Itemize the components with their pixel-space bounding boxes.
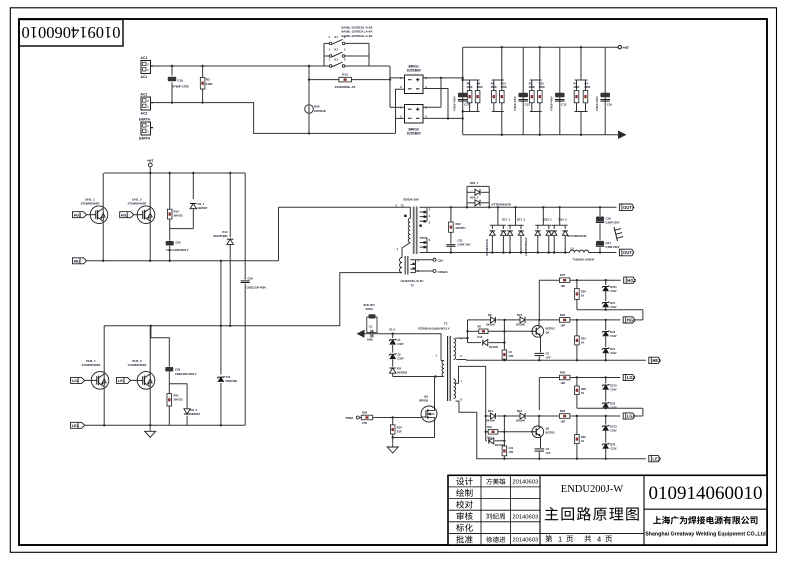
svg-text:27R: 27R: [362, 421, 367, 425]
capacitor C3: [535, 352, 551, 362]
node AC1-R26: [308, 65, 310, 67]
svg-text:CBB-2,2NF/2000 V: CBB-2,2NF/2000 V: [166, 248, 189, 252]
svg-text:4: 4: [597, 535, 601, 544]
wire mid-to-transformer: [278, 207, 280, 260]
diode D16: [486, 438, 505, 447]
svg-text:C6: C6: [509, 350, 513, 354]
node BRIG minus join: [447, 117, 449, 119]
zener DZ6: [602, 390, 617, 409]
svg-text:A15W005M1A5: A15W005M1A5: [524, 237, 528, 256]
wire DH2_2 collector: [149, 326, 151, 373]
svg-text:DH2_1: DH2_1: [86, 359, 96, 363]
terminal PWM: [346, 416, 362, 420]
zener DZ13: [602, 416, 617, 432]
svg-text:R7: R7: [529, 82, 533, 86]
node HG1-DZ: [605, 319, 607, 321]
resistor R24: [575, 320, 587, 360]
svg-text:R9: R9: [491, 82, 495, 86]
wire C29 branch: [151, 326, 169, 367]
connector OUT-: [619, 249, 634, 256]
svg-text:1N4148: 1N4148: [516, 324, 525, 327]
wire R8 row: [468, 330, 534, 332]
svg-text:D8: D8: [397, 366, 401, 370]
svg-text:HFA25TB60: HFA25TB60: [213, 234, 228, 238]
wire HG1 row out: [570, 319, 643, 321]
wire HG2 row out: [570, 279, 621, 281]
svg-text:C18V: C18V: [610, 335, 617, 338]
svg-text:C18V: C18V: [610, 352, 617, 355]
svg-text:R6: R6: [467, 82, 471, 86]
svg-text:HER307: HER307: [191, 412, 201, 416]
svg-text:9A08L-12VDC9L-A-9A: 9A08L-12VDC9L-A-9A: [341, 34, 373, 38]
wire -HT bottom rail: [463, 134, 618, 136]
svg-text:H140A/20A-CL5U: H140A/20A-CL5U: [401, 279, 424, 283]
node rail-DZ1: [605, 359, 607, 361]
resistor R29: [487, 425, 498, 439]
wire LG2-gate: [85, 379, 92, 381]
svg-text:C18V: C18V: [610, 429, 617, 432]
svg-text:DZ6: DZ6: [610, 402, 615, 406]
node emitter-DH1_2: [149, 260, 151, 262]
resistors R2/R4: [574, 46, 591, 136]
resistors R7/R15: [529, 46, 545, 136]
transistor Q4: [532, 320, 555, 353]
varistor R26: [305, 66, 326, 133]
svg-text:STGW60V60DF: STGW60V60DF: [128, 202, 147, 206]
svg-text:C18V: C18V: [610, 306, 617, 309]
node LG2-R38: [576, 376, 578, 378]
wire D9-R30 vertical: [503, 320, 505, 350]
resistor R3: [200, 66, 212, 103]
transistor DH1_2 (IGBT): [128, 173, 155, 261]
capacitor C2: [535, 447, 551, 459]
svg-text:680K: 680K: [529, 86, 535, 89]
wire upper collector rail: [104, 172, 245, 174]
capacitor C20: [166, 229, 189, 261]
svg-text:STTH6003CW: STTH6003CW: [492, 203, 512, 207]
svg-text:D12: D12: [517, 313, 523, 317]
svg-text:OUT-: OUT-: [623, 250, 634, 255]
svg-text:1K: 1K: [581, 341, 584, 345]
wire HG2-gate: [87, 214, 92, 216]
svg-text:R47: R47: [560, 273, 566, 277]
svg-text:1N4148: 1N4148: [486, 420, 495, 423]
svg-text:C10: C10: [178, 79, 184, 83]
svg-text:D11: D11: [488, 409, 493, 413]
node lc-mid: [220, 325, 222, 327]
svg-text:+HT: +HT: [147, 159, 154, 163]
wire lower collector rail: [104, 273, 402, 326]
svg-text:T2: T2: [444, 322, 448, 326]
svg-text:R22: R22: [456, 222, 462, 226]
svg-text:D14: D14: [222, 230, 228, 234]
svg-text:C2: C2: [546, 447, 550, 451]
svg-text:C28: C28: [606, 217, 612, 221]
node R13-right: [389, 78, 391, 80]
svg-text:21.V: 21.V: [389, 328, 395, 332]
svg-text:C18V: C18V: [610, 290, 617, 293]
svg-text:LG2: LG2: [72, 379, 79, 383]
wire DH2_1 collector: [103, 326, 105, 373]
svg-text:10D561K: 10D561K: [314, 109, 326, 113]
svg-text:R32: R32: [581, 435, 586, 439]
svg-text:476NF-275V: 476NF-275V: [172, 84, 190, 88]
svg-text:R26: R26: [314, 105, 320, 109]
resistor R31: [502, 446, 514, 460]
resistor R40: [559, 371, 570, 386]
svg-text:ENDU200J-W: ENDU200J-W: [561, 484, 623, 495]
node Q5 collector: [538, 415, 540, 417]
svg-text:DZ10: DZ10: [610, 384, 617, 388]
node BRIG plus join: [440, 77, 442, 79]
svg-text:20140603: 20140603: [512, 538, 538, 544]
svg-text:3,3NF-250V: 3,3NF-250V: [606, 245, 620, 249]
wire lower emitter rail: [85, 424, 246, 426]
svg-text:470UF-400V: 470UF-400V: [513, 96, 517, 111]
svg-text:DH2_2: DH2_2: [132, 359, 142, 363]
capacitor C24: [596, 231, 620, 254]
wire gate: [373, 417, 421, 419]
resistor R39: [575, 416, 587, 459]
connector HG1 (right): [623, 317, 636, 323]
resistor R41: [167, 384, 183, 426]
connector LG1 (right): [623, 413, 635, 419]
node emitter-DH1_1: [102, 260, 104, 262]
ground (aux): [387, 438, 398, 454]
svg-text:10R: 10R: [561, 382, 566, 385]
node HG1-R24: [576, 319, 578, 321]
diode D13: [468, 340, 505, 349]
node AC1-R3: [201, 65, 203, 67]
svg-text:R28: R28: [581, 387, 586, 391]
svg-text:680K: 680K: [467, 86, 473, 89]
svg-text:R15: R15: [539, 82, 544, 86]
output rectifier diode columns D17/D23: [485, 206, 587, 256]
node C21 bottom: [450, 251, 452, 253]
zener Z2: [389, 345, 404, 360]
svg-text:6W4R7J: 6W4R7J: [456, 226, 467, 230]
svg-text:R23: R23: [560, 409, 566, 413]
wire D9 row: [468, 319, 560, 321]
connector HG2 (right): [624, 277, 637, 283]
svg-text:HG2: HG2: [627, 278, 636, 283]
diode pair D29_1/D29_2: [466, 181, 511, 209]
transformer T2 (aux+gate drive): [419, 322, 463, 402]
svg-text:47R: 47R: [509, 450, 514, 454]
connector HG2: [73, 212, 87, 218]
svg-text:2W-223: 2W-223: [174, 214, 184, 218]
svg-text:010914060010: 010914060010: [22, 23, 121, 42]
wire Q4c to R47 row: [539, 280, 559, 320]
connector HE1: [73, 258, 87, 264]
svg-text:D25XB60: D25XB60: [407, 132, 421, 136]
terminal +HT (IGBT bus): [147, 159, 154, 173]
svg-text:180n: 180n: [367, 338, 373, 342]
svg-text:AC1: AC1: [141, 75, 148, 79]
resistor R37: [390, 418, 402, 438]
wire primary return: [0, 0, 1, 1]
svg-text:STGW60V60DF: STGW60V60DF: [81, 202, 100, 206]
node AC2-C10: [171, 101, 173, 103]
svg-text:HG2: HG2: [74, 213, 81, 217]
wire D11 row: [485, 415, 560, 417]
resistor R23: [559, 409, 570, 424]
svg-text:3,3NF-250V: 3,3NF-250V: [606, 221, 620, 225]
transformer T3 (CT): [399, 256, 448, 288]
svg-text:+HT: +HT: [623, 46, 629, 50]
svg-text:1UF: 1UF: [546, 356, 551, 360]
svg-text:AC1: AC1: [141, 56, 148, 60]
svg-text:010914060010: 010914060010: [649, 483, 763, 504]
resistor R38: [575, 378, 587, 409]
svg-text:C15V: C15V: [610, 447, 617, 450]
node rail-R10: [169, 172, 171, 174]
zener DZ4: [602, 291, 617, 309]
node source-gnd: [392, 436, 394, 438]
wire BRIG AC input A: [390, 66, 405, 107]
svg-text:10R: 10R: [561, 285, 566, 288]
wire HG1-gate: [134, 214, 138, 216]
svg-text:680K: 680K: [501, 86, 507, 89]
svg-text:R41: R41: [174, 394, 180, 398]
label Q5: [546, 427, 555, 435]
svg-text:DZ1: DZ1: [610, 347, 615, 351]
svg-text:C20: C20: [176, 241, 182, 245]
svg-text:10R: 10R: [561, 325, 566, 328]
svg-text:P6KE30B: P6KE30B: [226, 379, 238, 383]
svg-text:LG1: LG1: [118, 379, 125, 383]
svg-text:EE65X-16#: EE65X-16#: [403, 197, 419, 201]
svg-text:OUT+: OUT+: [623, 205, 635, 210]
svg-text:CXN2A: CXN2A: [438, 270, 449, 274]
connector AC1: [141, 56, 154, 79]
node le-DH2_2: [149, 424, 151, 426]
zener DZ1: [602, 337, 617, 361]
svg-text:CB+: CB+: [438, 258, 444, 262]
wire AC1 line rail: [151, 65, 391, 67]
transistor DH1_1 (IGBT): [81, 173, 108, 261]
svg-text:1N4148: 1N4148: [489, 346, 498, 349]
svg-text:EARTH: EARTH: [139, 118, 151, 122]
thermal breaker: [614, 227, 623, 241]
capacitor C28: [596, 206, 620, 231]
svg-text:BCP52: BCP52: [546, 431, 555, 435]
svg-text:R36: R36: [362, 411, 368, 415]
node rail-D3_1: [192, 172, 194, 174]
svg-text:IRF630: IRF630: [419, 398, 429, 402]
svg-text:R24: R24: [581, 337, 586, 341]
inductor L2: [570, 246, 595, 261]
svg-text:510K: 510K: [206, 82, 213, 86]
svg-text:HE1: HE1: [74, 259, 81, 263]
svg-text:470UF-400V: 470UF-400V: [550, 96, 554, 111]
node gate-R37: [392, 416, 394, 418]
node D11-D12: [504, 415, 506, 417]
diode D11: [486, 409, 495, 423]
svg-text:C15: C15: [561, 103, 567, 107]
svg-text:STTH6003CW: STTH6003CW: [567, 234, 587, 238]
svg-text:T3: T3: [410, 284, 414, 288]
wire R29 row: [485, 431, 534, 433]
svg-text:680K: 680K: [585, 86, 591, 89]
diode D14: [213, 173, 233, 326]
svg-text:C24: C24: [606, 241, 612, 245]
component CR33/C1: [364, 303, 393, 342]
node filter left minus: [462, 117, 464, 119]
svg-text:D29_1: D29_1: [470, 181, 479, 185]
node HG2-R48: [576, 279, 578, 281]
wire R13 branch: [309, 79, 390, 81]
svg-text:2W-223: 2W-223: [174, 398, 184, 402]
wire LG1-gate: [131, 379, 139, 381]
transistor Q3 (MOSFET): [419, 377, 437, 438]
wire primary top feed: [279, 206, 407, 208]
arrow -HT off-page: [618, 131, 627, 140]
transformer T1: [396, 197, 432, 257]
svg-text:K1: K1: [335, 48, 339, 52]
bridge rectifier BRIG1: [400, 65, 427, 94]
ground (lower emitter): [145, 425, 156, 437]
svg-text:EARTH: EARTH: [139, 137, 151, 141]
svg-text:10R: 10R: [561, 421, 566, 424]
svg-text:STTH6003CW: STTH6003CW: [485, 239, 489, 256]
svg-text:CR33: CR33: [366, 307, 374, 311]
svg-text:DZ3: DZ3: [610, 330, 615, 334]
svg-text:HE1: HE1: [652, 358, 661, 363]
svg-text:1UF: 1UF: [546, 451, 551, 455]
wire D11-R31 vertical: [503, 416, 505, 446]
node rail2-DZ8: [605, 458, 607, 460]
wire filter left vertical: [462, 47, 464, 135]
svg-text:K10W4R8JL-P3: K10W4R8JL-P3: [335, 85, 356, 89]
svg-text:L2: L2: [571, 246, 575, 250]
resistors R6/R8: [462, 79, 483, 113]
svg-text:D9: D9: [488, 313, 492, 317]
node rail2-R39: [576, 458, 578, 460]
svg-text:R37: R37: [397, 425, 403, 429]
svg-text:DZ8: DZ8: [610, 443, 615, 447]
svg-text:Z10: Z10: [226, 375, 231, 379]
node LG2-DZ: [605, 376, 607, 378]
svg-text:680K: 680K: [491, 86, 497, 89]
svg-text:R10: R10: [174, 210, 180, 214]
svg-text:CBB2,2UF-400V: CBB2,2UF-400V: [247, 286, 267, 290]
connector LE1: [71, 422, 85, 428]
resistor R30: [502, 350, 513, 361]
wire LG2 row from Q5: [539, 378, 559, 411]
node le-DH2_1: [103, 424, 105, 426]
resistor R10 (snubber): [167, 173, 183, 229]
svg-text:C30V: C30V: [397, 342, 404, 346]
svg-text:Z1: Z1: [397, 338, 401, 342]
svg-text:K1: K1: [335, 35, 339, 39]
wire HG2 return: [577, 309, 643, 320]
wire secA bottom rail: [456, 359, 646, 362]
svg-text:CBB2,2NF/1600 V: CBB2,2NF/1600 V: [175, 372, 197, 376]
zener DZ10: [602, 378, 617, 392]
svg-text:470UF-400V: 470UF-400V: [595, 96, 599, 111]
node LG1-R39: [576, 415, 578, 417]
top-left document number box: [19, 20, 123, 47]
svg-text:DZ13: DZ13: [610, 425, 617, 429]
svg-text:C36: C36: [248, 277, 254, 281]
svg-text:R13: R13: [342, 73, 348, 77]
svg-text:R40: R40: [560, 371, 566, 375]
node LG1-DZ: [605, 415, 607, 417]
wire source return: [393, 437, 435, 439]
svg-text:D23_1: D23_1: [544, 218, 553, 222]
svg-text:1N4148: 1N4148: [486, 324, 495, 327]
svg-text:DH1_1: DH1_1: [85, 198, 95, 202]
svg-text:R29: R29: [487, 425, 492, 429]
wire BRIG minus output: [423, 89, 463, 119]
title block: [448, 475, 767, 545]
svg-text:Q4: Q4: [546, 331, 550, 335]
node rail2-C2: [538, 458, 540, 460]
zener DZ2: [602, 280, 617, 293]
wire upper emitter rail: [87, 260, 279, 262]
wire BRIG plus output: [423, 78, 463, 107]
wire filter mid vertical 1: [522, 47, 524, 135]
capacitor C15: [550, 93, 567, 111]
diode D3_1: [190, 173, 208, 229]
connector LE1 (right): [649, 456, 661, 462]
svg-text:AC2: AC2: [141, 112, 148, 116]
node rail-R24: [576, 359, 578, 361]
transistor DH2_1 (IGBT): [82, 359, 109, 425]
svg-text:D13: D13: [478, 335, 483, 339]
svg-text:680K: 680K: [539, 86, 545, 89]
svg-text:K1: K1: [335, 58, 339, 62]
connector LG1: [117, 377, 131, 383]
capacitor C36: [241, 173, 267, 425]
capacitor C17: [452, 93, 469, 111]
svg-text:D3_1: D3_1: [198, 202, 205, 206]
svg-text:51R: 51R: [397, 429, 402, 433]
wire snubber node 2: [169, 383, 187, 385]
svg-text:D25XB60: D25XB60: [407, 69, 421, 73]
wire secB pin8 to return: [456, 401, 477, 412]
resistor R36: [361, 411, 372, 426]
svg-text:AC2: AC2: [141, 93, 148, 97]
node filter left plus: [462, 77, 464, 79]
node 21.5V: [389, 328, 395, 335]
svg-text:DZ4: DZ4: [610, 301, 615, 305]
svg-text:470UF-400V: 470UF-400V: [452, 96, 456, 111]
wire aux node to T2: [393, 334, 441, 361]
node emitter-mid: [220, 260, 222, 262]
node R22 top: [450, 206, 452, 208]
connector AC2: [141, 93, 154, 116]
svg-text:HER203: HER203: [397, 370, 407, 374]
svg-text:EE20BA16 2(x2)A0K2,5.V: EE20BA16 2(x2)A0K2,5.V: [419, 326, 450, 330]
connector EARTH: [139, 118, 153, 141]
resistor R22g: [559, 313, 570, 328]
capacitor C16: [595, 93, 612, 111]
connector OUT+: [619, 204, 634, 211]
svg-text:PWM: PWM: [346, 416, 354, 420]
diode D9: [486, 313, 495, 327]
svg-text:HG1: HG1: [121, 213, 128, 217]
wire secA top to driver: [456, 320, 469, 343]
wire snubber node: [170, 228, 194, 230]
node lc-DH2_2: [150, 325, 152, 327]
svg-text:D23_2: D23_2: [559, 218, 568, 222]
svg-text:2,2NF-1KV: 2,2NF-1KV: [458, 243, 471, 247]
zener DZ8: [602, 431, 617, 459]
wire +HT top rail: [463, 46, 619, 48]
resistors R9/R12: [491, 46, 507, 136]
